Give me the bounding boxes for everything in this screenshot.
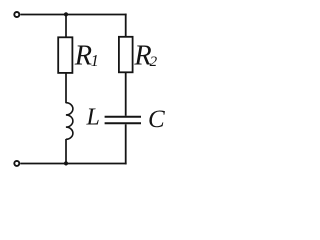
label R1 <box>74 40 99 71</box>
wire right branch upper <box>125 14 127 37</box>
svg-text:C: C <box>148 106 165 133</box>
label R2 <box>133 40 157 71</box>
svg-text:1: 1 <box>91 51 99 70</box>
capacitor C top plate <box>105 116 141 118</box>
wire top <box>20 14 126 16</box>
wire right branch lower <box>125 124 127 164</box>
wire right branch middle <box>125 72 127 116</box>
junction node top <box>64 12 68 16</box>
resistor R2 <box>119 37 133 73</box>
terminal bottom-left <box>14 161 19 166</box>
svg-text:L: L <box>86 105 100 131</box>
wire bottom <box>20 163 126 165</box>
wire left branch upper <box>65 15 67 38</box>
resistor R1 <box>58 37 72 73</box>
svg-text:2: 2 <box>150 54 158 70</box>
inductor L <box>66 103 73 140</box>
terminal top-left <box>14 12 19 17</box>
junction node bottom <box>64 161 68 165</box>
wire left branch middle <box>65 73 67 103</box>
svg-text:R: R <box>74 40 92 71</box>
wire left branch lower <box>65 139 67 164</box>
capacitor C bottom plate <box>105 122 141 124</box>
